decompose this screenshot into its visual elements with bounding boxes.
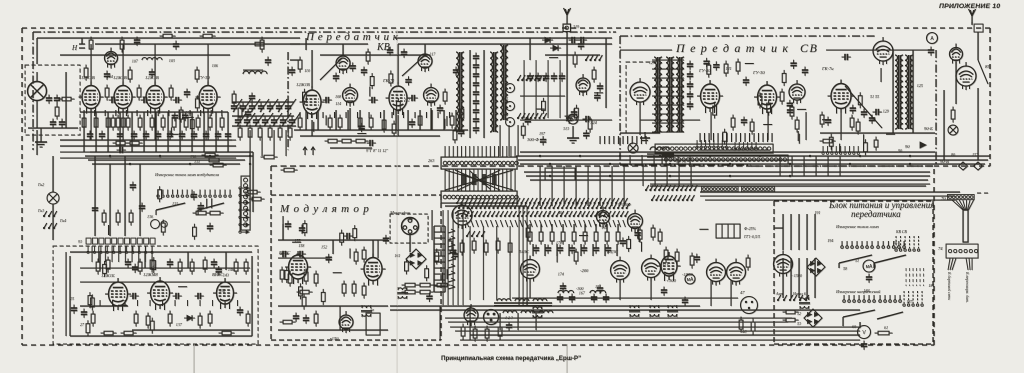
resistor R50 — [443, 89, 447, 105]
wire — [107, 112, 109, 152]
block border SV block top — [620, 35, 876, 37]
wire — [483, 50, 485, 138]
resistor R76 — [820, 112, 824, 128]
wire — [678, 164, 680, 186]
resistor meas R2 — [161, 220, 165, 236]
resistor R114 lower — [220, 115, 224, 131]
switch contacts S11 — [43, 223, 57, 229]
wire — [377, 240, 379, 258]
wire — [424, 44, 426, 54]
capacitor C181 — [597, 285, 603, 294]
resistor R161 — [168, 311, 172, 327]
resistor R195 — [583, 229, 587, 245]
capacitor C75 — [842, 54, 851, 60]
wire — [443, 110, 445, 130]
capacitor C ant4 — [559, 73, 565, 82]
pins SV pins b — [734, 142, 757, 150]
capacitor C161 — [297, 251, 306, 257]
junction — [189, 163, 191, 165]
wire — [285, 130, 287, 156]
wire — [623, 166, 625, 206]
wire — [551, 166, 553, 206]
coil core — [243, 69, 263, 71]
capacitor C165 — [293, 313, 299, 322]
capacitor Cb21 — [244, 117, 250, 126]
resistor R81 — [951, 107, 955, 123]
wire — [642, 164, 644, 186]
wire — [292, 241, 301, 243]
resistor R134b — [193, 211, 210, 215]
tube ГУ-50 V16 — [754, 81, 780, 114]
switch contacts SB6 — [651, 195, 695, 201]
capacitor SV nets C1 — [703, 58, 709, 67]
wire — [211, 198, 213, 208]
rectifier bridge VD bridge3 — [804, 309, 822, 327]
block border modulator top — [271, 194, 441, 196]
wire — [383, 110, 385, 130]
wire — [206, 199, 208, 209]
wire — [611, 166, 613, 206]
junction — [789, 163, 791, 165]
wire — [95, 112, 97, 152]
wire — [154, 44, 156, 84]
resistor R140 — [102, 210, 106, 226]
capacitor C17 lower — [179, 131, 185, 140]
capacitor C182 — [661, 287, 667, 296]
wire — [60, 139, 232, 141]
wire — [604, 244, 606, 256]
wire — [814, 214, 816, 250]
wire — [700, 195, 955, 197]
block border strip70 dash — [977, 192, 990, 194]
wire — [912, 50, 914, 133]
winding crossbars — [652, 60, 684, 132]
wire — [532, 244, 534, 256]
wire — [88, 159, 245, 161]
wire — [282, 216, 284, 240]
capacitor C163 — [299, 225, 305, 234]
wire — [313, 122, 315, 132]
wire — [80, 111, 228, 113]
resistor mod R0 — [302, 294, 306, 310]
capacitor C sv3 — [687, 91, 693, 100]
wire — [455, 110, 457, 130]
microphone box — [390, 214, 428, 243]
ground — [35, 128, 47, 147]
resistor R155 — [190, 259, 194, 275]
switch contacts S2 row — [517, 113, 547, 119]
wire — [178, 286, 187, 288]
wire — [568, 244, 570, 256]
resistor R222 — [875, 331, 893, 335]
wire — [587, 166, 589, 206]
capacitor C33 — [265, 57, 271, 66]
capacitor C156 — [237, 307, 243, 316]
capacitor C11 lower — [99, 131, 105, 140]
resistor R157 — [234, 259, 238, 275]
resistor R135b — [207, 211, 224, 215]
block border modulator bottom — [271, 339, 441, 341]
resistor R210 — [658, 229, 662, 245]
wire — [782, 258, 784, 298]
capacitor C45 — [361, 67, 367, 76]
capacitor KV nets C10 — [350, 62, 356, 71]
wire — [526, 298, 528, 306]
wire — [278, 239, 388, 241]
wire — [249, 152, 251, 212]
block border exciter sub-block — [53, 246, 258, 344]
tube V18 — [873, 37, 893, 65]
wire — [60, 151, 236, 153]
capacitor C175 — [593, 245, 599, 254]
wire — [359, 110, 361, 130]
junction — [579, 155, 581, 157]
wire bundle center bundle — [445, 169, 515, 191]
tube ГК-71 V10 — [386, 82, 411, 115]
wire — [805, 112, 807, 140]
wire — [119, 112, 121, 152]
wire — [880, 68, 882, 82]
capacitor C70 — [743, 77, 749, 86]
capacitor C60 — [578, 41, 584, 50]
block border SV block bottom — [620, 164, 751, 166]
right label col — [906, 268, 924, 286]
wire — [325, 115, 327, 125]
capacitor C8 — [141, 97, 150, 103]
resistor R196 — [594, 229, 598, 245]
resistor R206 — [473, 326, 477, 342]
transformer T2 — [361, 305, 372, 317]
wire — [273, 130, 275, 156]
wire — [305, 38, 307, 50]
connector 74 box — [946, 244, 978, 258]
capacitor C162 — [285, 221, 291, 230]
wire — [641, 242, 643, 252]
capacitor C73 — [802, 67, 808, 76]
transformer T15 — [532, 306, 543, 318]
tube 6Ж3П V3 — [79, 82, 104, 114]
wire — [143, 112, 145, 152]
wire — [666, 164, 668, 186]
wire — [60, 145, 236, 147]
switch bar SA6 — [877, 312, 903, 319]
tube V21 — [956, 62, 976, 90]
block border outer left — [21, 28, 23, 345]
wire — [517, 313, 519, 330]
capacitor ant area C6 — [566, 115, 572, 124]
capacitor SV right C4 — [850, 105, 856, 114]
capacitor C189 — [866, 274, 872, 283]
capacitor C184 — [682, 297, 688, 306]
wire — [665, 155, 667, 165]
resistor R209d — [472, 238, 476, 254]
wire — [139, 164, 141, 236]
block border KV inner left — [287, 52, 289, 150]
resistor R62 — [588, 117, 592, 133]
junction — [609, 163, 611, 165]
switch contacts S relay50 — [466, 231, 485, 237]
junction — [549, 163, 551, 165]
antenna W1 antenna — [564, 8, 571, 24]
tube V13 310 — [576, 74, 590, 96]
capacitor C171 — [545, 245, 551, 254]
switch contacts SC0 — [456, 198, 628, 204]
pins SV pins a — [696, 140, 728, 148]
capacitor C sv4 — [687, 101, 693, 110]
block border outer right upper — [989, 28, 991, 166]
wire — [710, 112, 712, 140]
capacitor C16 lower — [167, 131, 173, 140]
wire — [409, 235, 411, 252]
inductor L8 — [905, 55, 913, 129]
wire — [520, 163, 985, 165]
resistor sub R4 — [150, 318, 154, 334]
block border PD unit box — [626, 62, 656, 133]
cable fan3 — [966, 258, 972, 270]
capacitor Cb3 — [258, 103, 264, 112]
switch bar SA3 — [839, 255, 872, 263]
capacitor C49 — [437, 105, 443, 114]
capacitor C62 — [571, 109, 577, 118]
resistor R153 — [150, 257, 154, 273]
capacitor C tank1 — [473, 62, 479, 71]
fold crease — [193, 344, 195, 373]
choke base — [647, 154, 674, 157]
wire — [80, 267, 250, 269]
block border psu bottom — [774, 343, 933, 345]
switch bar SA5 — [843, 310, 875, 317]
rectifier bridge VD bridge1 — [406, 249, 426, 269]
wire — [122, 110, 124, 140]
resistor R221 — [783, 318, 799, 322]
wire — [278, 305, 388, 307]
switch dots SA4 — [877, 241, 906, 248]
capacitor C43 — [409, 95, 418, 101]
resistor SV nets R3 — [713, 103, 717, 119]
capacitor Cb5 — [276, 103, 282, 112]
capacitor C110 lower — [215, 131, 221, 140]
wire — [594, 92, 603, 94]
resistor KV nets R0 — [453, 127, 457, 143]
wire — [448, 321, 788, 323]
switch dots SA5 — [843, 295, 876, 302]
capacitor C32 — [245, 109, 251, 118]
block border psu left — [773, 201, 775, 344]
wire — [605, 38, 607, 108]
resistor R209 — [651, 225, 655, 241]
wire — [232, 101, 294, 103]
resistor R209f — [496, 238, 500, 254]
capacitor C72 — [787, 107, 793, 116]
meter PA4 V — [858, 326, 871, 339]
wire — [450, 326, 860, 328]
resistor SV nets R11 — [790, 104, 794, 120]
rotary switch SA1 — [156, 190, 193, 216]
block border outer right step — [934, 165, 990, 167]
wire — [122, 44, 124, 84]
resistor R11 lower — [94, 115, 98, 131]
resistor R133 — [261, 155, 278, 159]
resistor R1 — [59, 97, 75, 101]
resistor SV nets R15 — [723, 129, 727, 145]
wire — [294, 129, 468, 131]
wire — [653, 155, 655, 165]
wire — [566, 31, 568, 120]
wire — [822, 119, 831, 121]
junction — [129, 163, 131, 165]
junction — [159, 155, 161, 157]
resistor R6 — [84, 65, 88, 81]
capacitor C ant1 — [569, 37, 578, 43]
wire — [390, 305, 700, 307]
resistor R152 — [138, 259, 142, 275]
tube 6Н8С V25 — [285, 251, 311, 284]
wire — [826, 49, 930, 51]
resistor R49 — [418, 113, 422, 129]
resistor R53 — [339, 139, 355, 143]
wire — [544, 244, 546, 256]
wire — [170, 127, 172, 137]
resistor R168, — [219, 331, 235, 335]
capacitor SV nets C13 — [787, 100, 793, 109]
tube V37 КУ — [597, 207, 610, 228]
inductor L11c — [539, 311, 553, 313]
block border modulator right — [440, 195, 442, 340]
tube V30 — [611, 257, 630, 284]
capacitor C180 — [560, 283, 566, 292]
wire — [654, 164, 656, 186]
junction — [789, 175, 791, 177]
fold crease — [396, 30, 398, 373]
resistor mic area R3 — [435, 249, 439, 265]
resistor SV nets R6 — [782, 70, 786, 86]
capacitor psu mid C0 — [620, 237, 626, 246]
meter PA2 A — [927, 33, 938, 44]
resistor R167 — [121, 331, 137, 335]
resistor Rb1 — [248, 125, 252, 141]
resistor R158 — [244, 259, 248, 275]
capacitor C151 — [167, 259, 173, 268]
wire — [526, 175, 930, 177]
lamp HL2 — [948, 125, 958, 135]
wire — [530, 179, 928, 181]
connector ladder 93a — [241, 176, 250, 230]
wire — [977, 88, 979, 160]
resistor R60 — [573, 52, 577, 68]
wire — [529, 279, 531, 298]
wire — [859, 322, 861, 328]
wire — [36, 38, 38, 64]
wire — [439, 306, 441, 340]
wire — [282, 224, 284, 240]
resistor R41 — [298, 115, 302, 131]
wire — [397, 44, 399, 84]
resistor R186 — [280, 320, 296, 324]
junction — [619, 155, 621, 157]
wire — [431, 210, 433, 240]
wire — [838, 263, 840, 268]
junction — [729, 163, 731, 165]
resistor R212 — [739, 317, 743, 333]
capacitor C L13b — [603, 294, 609, 303]
cable — [963, 210, 968, 242]
resistor sub R2 — [88, 292, 92, 308]
block border psu top — [774, 200, 933, 202]
resistor Rb5 — [288, 125, 292, 141]
resistor R78 — [850, 115, 854, 131]
capacitor C19 lower — [203, 131, 209, 140]
wire — [227, 112, 229, 152]
tube V1 input — [28, 72, 47, 128]
capacitor KV nets C5 — [458, 128, 464, 137]
capacitor C150 — [125, 259, 131, 268]
resistor R193 — [561, 229, 565, 245]
wire — [430, 108, 432, 130]
resistor meas R7 — [193, 224, 197, 240]
tube V38 — [628, 210, 643, 233]
resistor R192 — [550, 229, 554, 245]
inductor L10a — [497, 299, 511, 301]
resistor R54 — [353, 139, 369, 143]
wire — [650, 185, 926, 187]
KV coil arrow2 — [402, 56, 424, 76]
wire bundle sub drop wires — [92, 246, 152, 262]
wire — [782, 214, 784, 250]
wire — [446, 116, 448, 126]
tube V24 — [213, 278, 237, 309]
capacitor exciter mid C2 — [172, 112, 178, 121]
capacitor C L12b — [569, 294, 575, 303]
junction — [539, 155, 541, 157]
capacitor C190 — [861, 341, 867, 350]
capacitor C79 — [928, 47, 934, 56]
resistor KV nets R11 — [460, 106, 464, 122]
capacitor C30 — [117, 147, 126, 153]
junction — [669, 163, 671, 165]
KV SV contacts — [895, 236, 920, 251]
resistor SV right R7 — [829, 134, 833, 150]
junction — [709, 155, 711, 157]
wire — [774, 227, 783, 229]
wire — [94, 156, 96, 236]
switch box 263 — [545, 168, 575, 180]
resistor R71 — [736, 59, 740, 75]
wire — [815, 156, 817, 176]
resistor mic area R0 — [425, 265, 429, 281]
resistor R177 — [352, 281, 356, 297]
resistor sub R8 — [103, 261, 107, 277]
capacitor C172 — [557, 245, 563, 254]
capacitor SV nets C0 — [713, 61, 719, 70]
capacitor ant area C4 — [594, 92, 600, 101]
T3 transformer box — [366, 313, 380, 335]
terminal strip XTb — [662, 155, 788, 164]
wire — [95, 155, 250, 157]
connector column XP1 — [239, 187, 249, 234]
capacitor C ant3 — [551, 73, 557, 82]
wire — [317, 110, 319, 130]
resistor R33 — [260, 37, 264, 53]
cross wires — [445, 170, 513, 190]
wire — [207, 44, 209, 84]
terminal strip XTa — [655, 144, 773, 153]
capacitor C sv0 — [687, 61, 693, 70]
resistor R185 — [314, 311, 318, 327]
resistor R15 lower — [121, 115, 125, 131]
resistor R43 — [338, 115, 342, 131]
wire — [85, 155, 253, 157]
wire bundle mid drops — [443, 210, 463, 305]
